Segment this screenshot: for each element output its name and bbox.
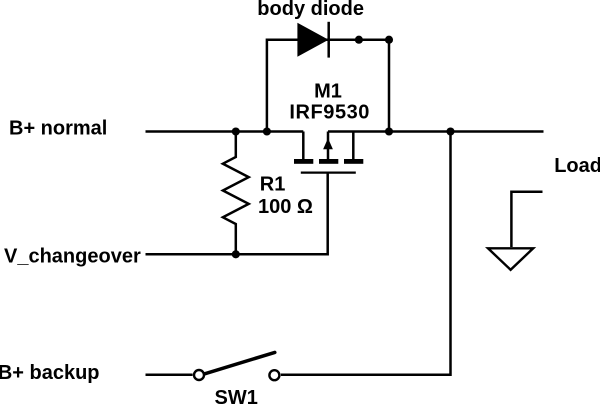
svg-text:B+ normal: B+ normal [9,118,107,140]
svg-text:B+ backup: B+ backup [0,362,100,384]
svg-text:SW1: SW1 [215,387,258,404]
svg-text:IRF9530: IRF9530 [289,102,370,124]
svg-text:Load: Load [554,155,600,177]
svg-text:V_changeover: V_changeover [4,246,141,268]
svg-text:body diode: body diode [257,0,364,20]
svg-text:M1: M1 [314,80,342,102]
svg-text:100 Ω: 100 Ω [258,196,313,218]
svg-text:R1: R1 [260,174,286,196]
